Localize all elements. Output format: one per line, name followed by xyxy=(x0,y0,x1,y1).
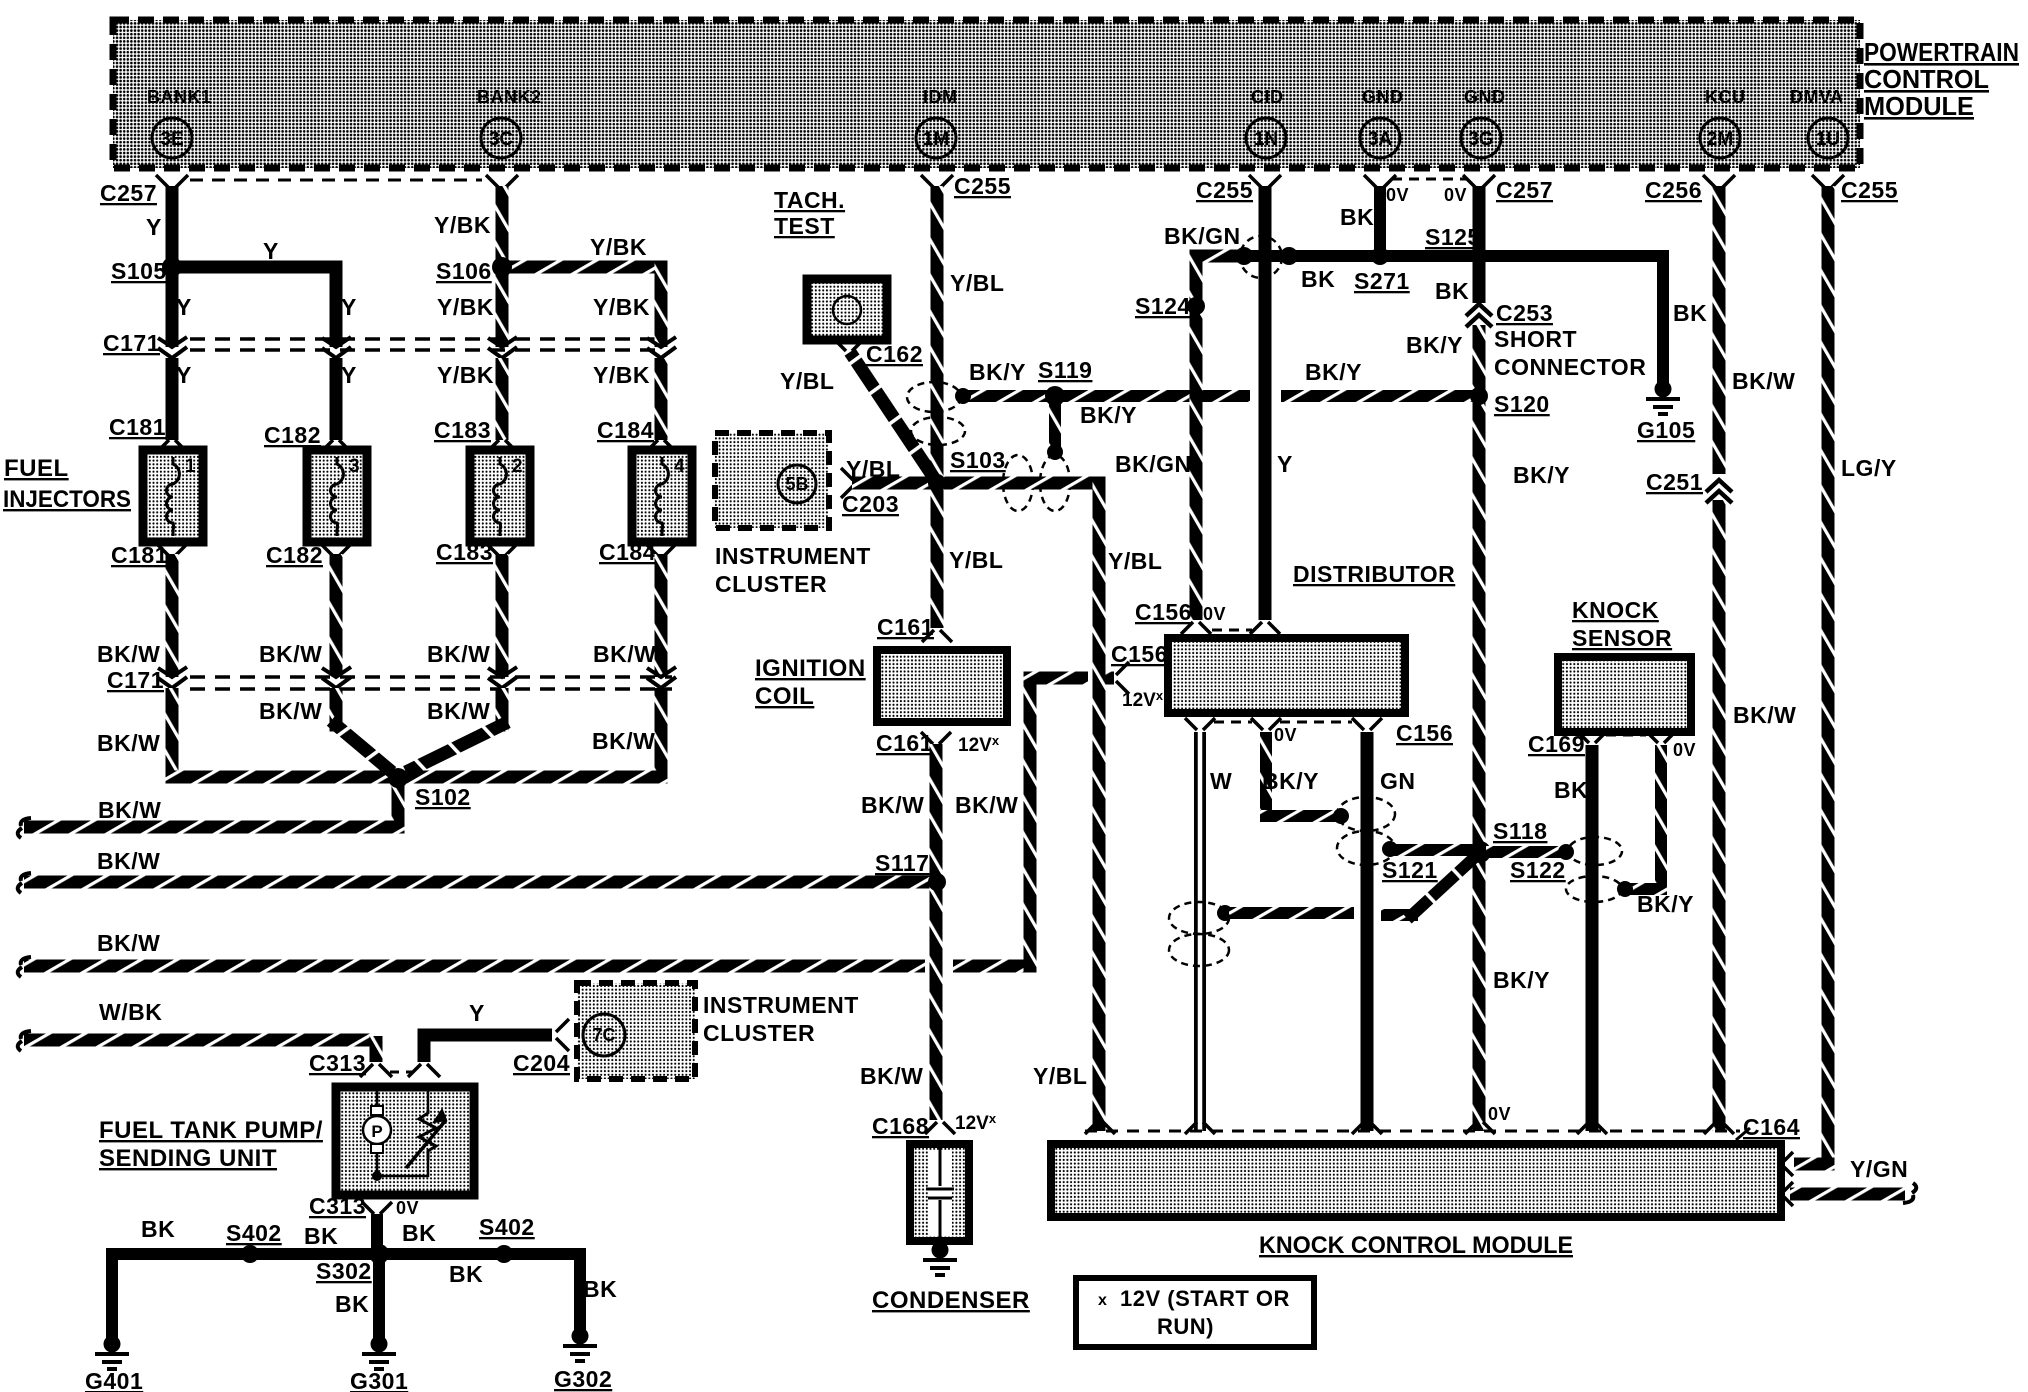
svg-text:S117: S117 xyxy=(875,850,929,876)
svg-text:C161: C161 xyxy=(876,730,933,756)
svg-text:S271: S271 xyxy=(1354,268,1410,294)
svg-text:BK/W: BK/W xyxy=(97,848,160,874)
svg-text:C257: C257 xyxy=(1496,177,1553,203)
svg-text:C183: C183 xyxy=(434,417,491,443)
svg-text:S122: S122 xyxy=(1510,857,1566,883)
connector C253 double chevron xyxy=(1466,304,1492,327)
svg-text:Y/BL: Y/BL xyxy=(949,547,1003,573)
svg-text:1: 1 xyxy=(185,456,196,477)
connector C156 chevrons below distributor xyxy=(1185,718,1215,730)
svg-text:TACH.: TACH. xyxy=(774,187,845,213)
svg-text:3C: 3C xyxy=(489,129,514,150)
connector C181 chevron below injector 1 xyxy=(156,543,188,556)
PCM pin circle 3A xyxy=(1360,118,1400,158)
svg-text:Y/BL: Y/BL xyxy=(1108,548,1162,574)
svg-text:INSTRUMENT: INSTRUMENT xyxy=(715,543,871,569)
condenser box xyxy=(910,1144,969,1241)
svg-text:BK: BK xyxy=(1673,300,1707,326)
connector C171 lower dashed lines xyxy=(190,675,672,679)
twisted-pair ellipses above S103 xyxy=(907,382,961,412)
wire BK/W from PCM 2M to C251 xyxy=(1713,186,1726,474)
svg-text:C253: C253 xyxy=(1496,300,1553,326)
svg-text:5B: 5B xyxy=(785,474,808,494)
svg-text:1N: 1N xyxy=(1254,129,1278,150)
wire BK ground bus right to G302 xyxy=(379,1254,580,1332)
svg-text:BK/W: BK/W xyxy=(97,730,160,756)
dashed connector line C257 between pin 3E and pin 3C xyxy=(190,179,482,182)
wire W distributor to knock module (double line) xyxy=(1194,732,1206,1131)
wire BK/Y S119 to S120 with break at Y wire xyxy=(1058,390,1250,402)
svg-text:0V: 0V xyxy=(1386,185,1409,205)
svg-text:SENSOR: SENSOR xyxy=(1572,625,1672,651)
pump motor P and sender resistor internals xyxy=(377,1091,428,1176)
svg-text:BK/Y: BK/Y xyxy=(969,359,1026,385)
svg-text:4: 4 xyxy=(674,456,685,477)
connector chevron at PCM pin 1M xyxy=(921,175,953,188)
splice S271 xyxy=(1280,247,1298,265)
svg-text:S121: S121 xyxy=(1382,857,1438,883)
wire BK splice row S271/S125 to G105 xyxy=(1244,256,1663,383)
wire S118 to knock sensor shield ellipse xyxy=(1486,846,1562,858)
svg-text:Y/BL: Y/BL xyxy=(780,368,834,394)
wire BK/W injector1 down to C171 xyxy=(166,554,179,677)
svg-text:Y/BK: Y/BK xyxy=(437,362,494,388)
PCM pin circle 3G xyxy=(1461,118,1501,158)
svg-text:G401: G401 xyxy=(85,1368,143,1392)
wire BK/W coil down through S117 to C168 xyxy=(930,744,943,1120)
note box 12V START OR RUN xyxy=(1076,1278,1314,1347)
svg-text:C313: C313 xyxy=(309,1193,366,1219)
condenser ground xyxy=(932,1242,949,1259)
svg-text:INJECTORS: INJECTORS xyxy=(3,486,131,513)
dashed connector line between 3A and 3G pins xyxy=(1392,178,1468,181)
wire BK/W S102 stub down to bus 1 xyxy=(392,778,405,834)
svg-text:7C: 7C xyxy=(592,1025,615,1045)
connector C171 dashed lines xyxy=(190,337,655,341)
wire Y/BK C171 to C183 xyxy=(496,358,509,440)
svg-text:S106: S106 xyxy=(436,258,492,284)
svg-text:BK/W: BK/W xyxy=(259,641,322,667)
svg-text:MODULE: MODULE xyxy=(1864,91,1974,121)
instrument cluster box 7C xyxy=(577,983,695,1079)
wire Y from PCM 3E down to C171 xyxy=(166,186,179,347)
wire BK/W injector2 down to C171 xyxy=(496,554,509,677)
splice S106 xyxy=(492,257,512,277)
svg-text:2: 2 xyxy=(512,456,523,477)
connector C164 dashed line above knock module xyxy=(1085,1130,1740,1133)
svg-text:TEST: TEST xyxy=(774,213,835,239)
svg-text:S402: S402 xyxy=(479,1214,535,1240)
svg-text:COIL: COIL xyxy=(755,683,814,710)
twisted-pair ellipses on W wire xyxy=(1169,902,1229,934)
svg-text:BK/W: BK/W xyxy=(592,728,655,754)
wire Y from PCM 1N down to distributor C156 xyxy=(1259,186,1272,620)
connector C313 chevron right pin xyxy=(408,1064,440,1077)
hook arrow of BK/W bus 1 xyxy=(18,818,31,838)
dashed connector circle on BK wire xyxy=(1240,236,1282,278)
svg-text:BK/W: BK/W xyxy=(861,792,924,818)
fuel injector 4 xyxy=(632,450,692,542)
svg-text:C255: C255 xyxy=(954,173,1011,199)
splice S103 xyxy=(928,474,946,492)
tach test terminal circle xyxy=(833,296,861,324)
connector C171 break on wire 1 xyxy=(158,337,187,358)
splice S402 right xyxy=(495,1245,513,1263)
svg-text:C168: C168 xyxy=(872,1113,929,1139)
svg-text:0V: 0V xyxy=(1274,725,1297,745)
splice S124 xyxy=(1187,297,1205,315)
connector C161 chevron above coil xyxy=(922,630,952,642)
wire Y/BK branch S106 to injector 4 column xyxy=(502,261,668,274)
PCM pin circle 3E xyxy=(152,118,192,158)
svg-text:x: x xyxy=(1098,1292,1107,1309)
connector C156 chevron BK/GN 0V pin xyxy=(1181,622,1211,634)
svg-text:C164: C164 xyxy=(1743,1114,1800,1140)
svg-text:POWERTRAIN: POWERTRAIN xyxy=(1864,37,2019,67)
tach test connector box xyxy=(807,279,887,340)
svg-text:BK/Y: BK/Y xyxy=(1493,967,1550,993)
connector C171 break on wire 3 xyxy=(488,337,517,358)
svg-text:0V: 0V xyxy=(1203,604,1226,624)
splice S118 xyxy=(1469,841,1491,863)
wire BK/W column3 diagonal to S102 xyxy=(496,688,509,732)
svg-text:BK: BK xyxy=(304,1223,338,1249)
svg-text:3G: 3G xyxy=(1468,129,1493,150)
svg-text:BK/W: BK/W xyxy=(1732,368,1795,394)
svg-text:C313: C313 xyxy=(309,1050,366,1076)
fuel injector 1 xyxy=(143,450,203,542)
connector chevron at PCM pin 1U xyxy=(1812,175,1844,188)
wire GN distributor to knock module xyxy=(1361,732,1374,1131)
splice S105 xyxy=(162,257,182,277)
svg-text:C204: C204 xyxy=(513,1050,570,1076)
twisted-pair ellipses on knock sensor BK wire xyxy=(1568,837,1622,865)
svg-text:BK: BK xyxy=(1554,777,1588,803)
svg-text:C156: C156 xyxy=(1111,641,1168,667)
connector C251 double chevron xyxy=(1706,480,1732,503)
svg-text:BK/W: BK/W xyxy=(427,698,490,724)
connector C171 break on wire 2 xyxy=(322,337,351,358)
svg-text:P: P xyxy=(371,1122,382,1141)
svg-text:G301: G301 xyxy=(350,1368,408,1392)
svg-text:C181: C181 xyxy=(111,542,168,568)
svg-text:BK/Y: BK/Y xyxy=(1406,332,1463,358)
condenser capacitor symbol xyxy=(928,1150,952,1235)
svg-text:W/BK: W/BK xyxy=(99,999,162,1025)
svg-text:BK/W: BK/W xyxy=(593,641,656,667)
svg-text:C181: C181 xyxy=(109,414,166,440)
svg-text:G302: G302 xyxy=(554,1366,612,1392)
svg-text:0V: 0V xyxy=(1673,740,1696,760)
svg-text:Y/BK: Y/BK xyxy=(434,212,491,238)
svg-text:INSTRUMENT: INSTRUMENT xyxy=(703,992,859,1018)
svg-text:RUN): RUN) xyxy=(1157,1314,1214,1339)
svg-text:DISTRIBUTOR: DISTRIBUTOR xyxy=(1293,561,1455,587)
knock sensor box xyxy=(1558,657,1691,732)
svg-text:C182: C182 xyxy=(264,422,321,448)
connector chevron at PCM pin 3C xyxy=(486,175,518,188)
instrument cluster box 5B xyxy=(715,433,829,528)
svg-text:CLUSTER: CLUSTER xyxy=(703,1020,815,1046)
connector C313 dashed link xyxy=(390,1071,412,1074)
module edge chevron LG/Y xyxy=(1784,1152,1793,1176)
svg-text:C171: C171 xyxy=(107,667,164,693)
svg-text:S124: S124 xyxy=(1135,293,1191,319)
PCM pin circle 2M xyxy=(1700,118,1740,158)
svg-text:BK/Y: BK/Y xyxy=(1262,768,1319,794)
svg-text:CID: CID xyxy=(1251,87,1284,107)
svg-text:Y: Y xyxy=(146,214,162,240)
connector C203 chevron xyxy=(841,468,853,498)
svg-text:Y/BL: Y/BL xyxy=(1033,1063,1087,1089)
svg-text:S120: S120 xyxy=(1494,391,1550,417)
svg-text:0V: 0V xyxy=(396,1198,419,1218)
svg-text:Y: Y xyxy=(263,238,279,264)
svg-text:S102: S102 xyxy=(415,784,471,810)
svg-text:BK/W: BK/W xyxy=(98,797,161,823)
svg-text:0V: 0V xyxy=(1488,1104,1511,1124)
wire Y C171 to C181 xyxy=(166,358,179,440)
connector C156 chevron 12V feed xyxy=(1116,662,1129,694)
wire BK/GN from BK splice down to distributor C156 xyxy=(1190,250,1245,263)
svg-text:1M: 1M xyxy=(923,129,949,150)
connector C257 chevron at PCM pin 3E xyxy=(156,175,188,188)
splice S302 xyxy=(369,1244,389,1264)
connector C204 chevron xyxy=(556,1019,569,1051)
connector C156 dashed link at distributor top xyxy=(1212,629,1252,632)
svg-text:Y: Y xyxy=(176,362,192,388)
connector C168 chevron xyxy=(925,1122,955,1134)
svg-text:Y: Y xyxy=(176,294,192,320)
svg-text:3: 3 xyxy=(349,456,360,477)
svg-text:C182: C182 xyxy=(266,542,323,568)
svg-text:C203: C203 xyxy=(842,491,899,517)
svg-text:CONTROL: CONTROL xyxy=(1864,64,1989,94)
svg-text:Y/GN: Y/GN xyxy=(1850,1156,1908,1182)
svg-text:DMVA: DMVA xyxy=(1790,87,1844,107)
PCM pin circle 1M xyxy=(916,118,956,158)
svg-text:GND: GND xyxy=(1362,87,1404,107)
ground G301 xyxy=(371,1336,388,1353)
ground G401 xyxy=(104,1336,121,1353)
svg-text:C171: C171 xyxy=(103,330,160,356)
svg-text:FUEL TANK PUMP/: FUEL TANK PUMP/ xyxy=(99,1117,323,1144)
twisted-pair ellipses on GN wire xyxy=(1337,797,1395,831)
svg-text:G105: G105 xyxy=(1637,417,1695,443)
svg-text:S118: S118 xyxy=(1493,818,1547,844)
svg-text:CLUSTER: CLUSTER xyxy=(715,571,827,597)
wire BK knock sensor to knock module xyxy=(1586,745,1599,1131)
connector C184 chevron below injector 4 xyxy=(645,543,677,556)
svg-text:BK: BK xyxy=(1301,266,1335,292)
connector C182 chevron below injector 3 xyxy=(320,543,352,556)
connector chevrons into knock module xyxy=(1085,1122,1115,1134)
twisted-pair ellipses right of S103 xyxy=(1003,455,1033,511)
svg-text:Y/BK: Y/BK xyxy=(593,294,650,320)
connector C183 chevron xyxy=(486,440,518,453)
svg-text:IDM: IDM xyxy=(923,87,958,107)
wire BK/Y C253 down through S120/S118 to knock module xyxy=(1473,325,1486,1131)
wire BK ground bus left to G401 xyxy=(112,1254,504,1340)
svg-text:C169: C169 xyxy=(1528,731,1585,757)
svg-text:C255: C255 xyxy=(1196,177,1253,203)
svg-text:Y: Y xyxy=(1277,451,1293,477)
svg-text:SHORT: SHORT xyxy=(1494,326,1577,352)
wire BK/W column4 to S102 bus xyxy=(655,688,668,784)
svg-text:BK/Y: BK/Y xyxy=(1080,402,1137,428)
svg-text:BANK2: BANK2 xyxy=(477,87,542,107)
svg-text:BK: BK xyxy=(1435,278,1469,304)
wire BK/Y distributor 0V to shield ellipse xyxy=(1260,732,1272,816)
splice S120 xyxy=(1470,387,1488,405)
svg-text:C255: C255 xyxy=(1841,177,1898,203)
svg-text:BK/GN: BK/GN xyxy=(1164,223,1241,249)
wire BK/W injector4 down to C171 xyxy=(655,554,668,677)
svg-text:FUEL: FUEL xyxy=(4,455,69,482)
svg-text:Y/BK: Y/BK xyxy=(593,362,650,388)
wire BK/W injector3 down to C171 xyxy=(330,554,343,677)
wire BK from PCM 3G to C253 xyxy=(1473,186,1486,303)
wire BK stub PCM 3A xyxy=(1364,175,1396,188)
svg-text:BK/Y: BK/Y xyxy=(1637,891,1694,917)
connector C161 chevron below coil xyxy=(921,732,951,744)
connector C169 chevrons below knock sensor xyxy=(1577,731,1607,743)
connector C156 dashed link below distributor xyxy=(1214,721,1252,724)
svg-text:SENDING UNIT: SENDING UNIT xyxy=(99,1145,277,1172)
wire LG/Y from PCM 1U down to knock module right edge xyxy=(1822,186,1835,1171)
svg-text:C184: C184 xyxy=(599,539,656,565)
wire BK/W C251 down to knock module xyxy=(1713,500,1726,1131)
svg-text:BK/W: BK/W xyxy=(97,930,160,956)
svg-text:0V: 0V xyxy=(1444,185,1467,205)
svg-text:S105: S105 xyxy=(111,258,167,284)
wire from shield ellipse to S118 xyxy=(1382,841,1398,857)
svg-text:BANK1: BANK1 xyxy=(147,87,212,107)
wire Y C171 to C182 xyxy=(330,358,343,440)
circle 7C xyxy=(583,1014,625,1056)
wire BK S302 down to G301 xyxy=(373,1254,385,1340)
wire Y/BL S103 right then down to knock module xyxy=(944,477,1106,490)
connector chevron at PCM pin 2M xyxy=(1703,175,1735,188)
svg-text:2M: 2M xyxy=(1707,129,1733,150)
connector C171 break on wire 4 xyxy=(647,337,676,358)
svg-text:C156: C156 xyxy=(1135,599,1192,625)
svg-text:Y: Y xyxy=(341,294,357,320)
wire Y branch S105 to injector 2 column xyxy=(172,267,336,347)
svg-text:BK: BK xyxy=(141,1216,175,1242)
wire Y/BL from PCM 1M down to S103 xyxy=(931,186,944,477)
wire Y/BL S103 down to ignition coil C161 xyxy=(931,489,944,628)
svg-text:BK/GN: BK/GN xyxy=(1115,451,1192,477)
svg-text:Y/BK: Y/BK xyxy=(590,234,647,260)
connector C313 chevron below pump xyxy=(362,1202,392,1214)
wire Y C313 to C204 xyxy=(424,1035,552,1062)
svg-text:BK: BK xyxy=(583,1276,617,1302)
svg-text:Y: Y xyxy=(341,362,357,388)
wire Y/BL C162 diagonal to S103 xyxy=(850,352,936,481)
svg-text:C156: C156 xyxy=(1396,720,1453,746)
connector chevron at PCM pin 1N xyxy=(1249,175,1281,188)
svg-text:LG/Y: LG/Y xyxy=(1841,455,1897,481)
svg-text:GN: GN xyxy=(1380,768,1416,794)
fuel tank pump / sending unit box xyxy=(336,1087,474,1195)
ignition coil box xyxy=(877,650,1007,722)
svg-text:Y/BK: Y/BK xyxy=(437,294,494,320)
connector C184 chevron xyxy=(645,440,677,453)
wire BK/W long bus 2 to S117 xyxy=(24,876,937,889)
svg-text:3A: 3A xyxy=(1368,129,1393,150)
svg-text:GND: GND xyxy=(1464,87,1506,107)
wire BK/W column2 diagonal to S102 xyxy=(330,688,343,732)
svg-text:BK/W: BK/W xyxy=(1733,702,1796,728)
svg-text:BK/W: BK/W xyxy=(860,1063,923,1089)
connector C183 chevron below injector 2 xyxy=(486,543,518,556)
module edge chevron Y/GN xyxy=(1784,1182,1793,1206)
svg-text:CONDENSER: CONDENSER xyxy=(872,1287,1030,1314)
wire BK pump to S302 xyxy=(371,1214,383,1254)
svg-text:C184: C184 xyxy=(597,417,654,443)
svg-text:C251: C251 xyxy=(1646,469,1703,495)
wire Y/GN out of knock module xyxy=(1790,1188,1905,1201)
PCM pin circle 1N xyxy=(1246,118,1286,158)
svg-text:S402: S402 xyxy=(226,1220,282,1246)
svg-text:S125: S125 xyxy=(1425,224,1481,250)
svg-text:3E: 3E xyxy=(160,129,183,150)
fuel injector 3 xyxy=(307,450,367,542)
svg-text:BK/Y: BK/Y xyxy=(1305,359,1362,385)
svg-text:1U: 1U xyxy=(1816,129,1840,150)
svg-text:KCU: KCU xyxy=(1705,87,1746,107)
wire Y/BK from PCM 3C down to C171 xyxy=(496,186,509,347)
connector C182 chevron xyxy=(320,440,352,453)
connector C171 lower breaks xyxy=(158,667,187,688)
connector chevron at PCM pin 3G xyxy=(1463,175,1495,188)
svg-text:BK: BK xyxy=(335,1291,369,1317)
svg-text:BK: BK xyxy=(402,1220,436,1246)
svg-text:BK/Y: BK/Y xyxy=(1513,462,1570,488)
svg-text:KNOCK CONTROL MODULE: KNOCK CONTROL MODULE xyxy=(1259,1232,1573,1259)
svg-text:S103: S103 xyxy=(950,447,1006,473)
wire BK/Y knock sensor 0V to shield ellipse xyxy=(1655,745,1667,889)
connector C162 chevron xyxy=(834,339,864,351)
ground G105 with BK wire xyxy=(1655,381,1672,398)
circle 5B xyxy=(778,465,816,503)
wire BK/W long bus 3 to C156 12V feed xyxy=(24,960,925,973)
wire from W shield ellipse toward GN xyxy=(1217,905,1233,921)
svg-text:Y/BL: Y/BL xyxy=(950,270,1004,296)
svg-text:S302: S302 xyxy=(316,1258,372,1284)
svg-text:S119: S119 xyxy=(1038,357,1092,383)
connector C181 chevron xyxy=(156,440,188,453)
splice S119 xyxy=(1045,386,1065,406)
svg-text:C162: C162 xyxy=(866,341,923,367)
splice S117 xyxy=(928,873,946,891)
wire BK/Y stub S119 down to shield ellipse xyxy=(1049,396,1061,450)
svg-text:C161: C161 xyxy=(877,614,934,640)
splice S125 xyxy=(1470,247,1488,265)
wire Y/BL C203 to S103 xyxy=(852,477,931,490)
svg-text:IGNITION: IGNITION xyxy=(755,655,866,682)
splice S402 left xyxy=(241,1245,259,1263)
fuel injector 2 xyxy=(470,450,530,542)
svg-text:BK: BK xyxy=(1340,204,1374,230)
wire W/BK long bus 4 to C313 xyxy=(24,1034,372,1047)
svg-text:BK: BK xyxy=(449,1261,483,1287)
svg-text:BK/W: BK/W xyxy=(955,792,1018,818)
wire S121 diagonal xyxy=(1381,909,1418,921)
wire Y/BK C171 to C184 xyxy=(655,358,668,440)
svg-text:CONNECTOR: CONNECTOR xyxy=(1494,354,1646,380)
